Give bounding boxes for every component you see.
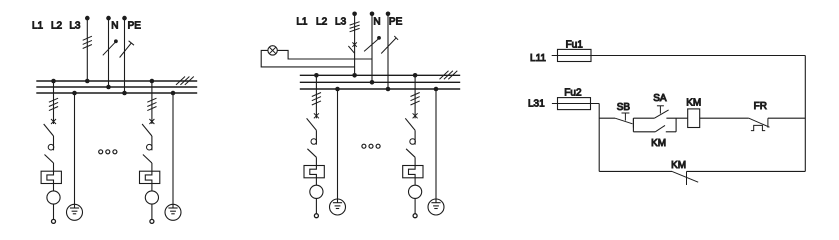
svg-text:L3: L3	[335, 17, 347, 28]
svg-text:KM: KM	[671, 160, 686, 171]
svg-text:PE: PE	[389, 17, 403, 28]
svg-text:L1: L1	[32, 21, 44, 32]
svg-text:L2: L2	[316, 17, 328, 28]
svg-text:N: N	[373, 17, 380, 28]
svg-text:Fu2: Fu2	[564, 87, 582, 98]
svg-text:FR: FR	[754, 101, 767, 112]
svg-text:SA: SA	[653, 93, 667, 104]
svg-text:L31: L31	[528, 99, 545, 110]
svg-text:N: N	[111, 21, 118, 32]
svg-text:L1: L1	[296, 17, 308, 28]
svg-text:L2: L2	[51, 21, 63, 32]
svg-text:KM: KM	[651, 138, 666, 149]
svg-text:SB: SB	[617, 102, 631, 113]
svg-text:KM: KM	[686, 97, 701, 108]
svg-text:PE: PE	[128, 21, 142, 32]
svg-text:L11: L11	[530, 53, 546, 64]
svg-text:L3: L3	[69, 21, 81, 32]
